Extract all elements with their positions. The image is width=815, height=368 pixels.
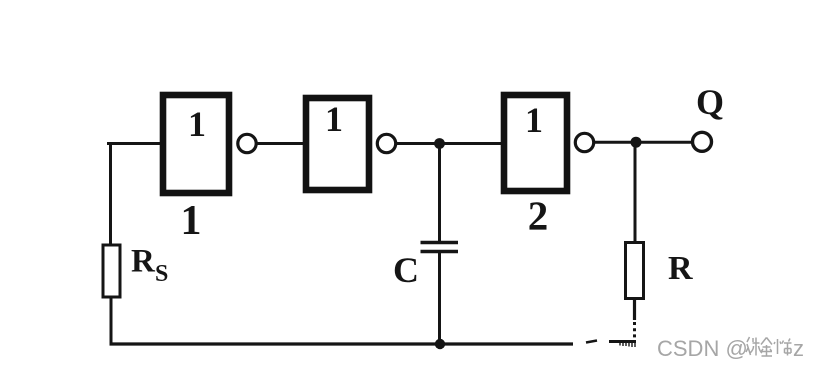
watermark CJK glyph guai: [774, 339, 792, 356]
wire capacitor bottom lead: [438, 252, 441, 346]
svg-text:1: 1: [181, 198, 202, 244]
svg-text:R: R: [668, 250, 693, 287]
svg-text:R: R: [131, 244, 156, 280]
capacitor C plates: [421, 243, 459, 252]
resistor RS body: [103, 245, 120, 297]
bottom rail faded dash segment: [586, 341, 597, 343]
watermark z: [793, 336, 804, 361]
label 2 under gate U3: [528, 193, 549, 239]
output bubble of U2: [377, 134, 395, 152]
svg-text:1: 1: [188, 104, 206, 144]
inverter gate U1: [163, 95, 229, 193]
node at capacitor bottom: [435, 339, 445, 349]
label Q: [696, 82, 724, 122]
watermark CJK glyph jin: [761, 338, 772, 357]
wire R bottom dotted segment: [633, 322, 636, 340]
wire U3 to output terminal: [594, 141, 692, 144]
wire left vertical from input down to Rs: [109, 142, 112, 245]
watermark CSDN: [657, 336, 748, 361]
wire Rs bottom to bottom rail: [110, 297, 113, 346]
output bubble of U3: [575, 133, 593, 151]
label C: [393, 250, 419, 290]
svg-text:Q: Q: [696, 82, 724, 122]
svg-text:z: z: [793, 336, 804, 361]
label 1 under gate U1: [181, 198, 202, 244]
bottom rail wire: [110, 342, 574, 345]
wire capacitor top lead: [438, 144, 441, 244]
wire R top lead: [634, 142, 637, 243]
node at capacitor top: [434, 138, 445, 149]
wire U2 to U3: [396, 142, 504, 145]
svg-text:2: 2: [528, 193, 549, 239]
label R: [668, 250, 693, 287]
bottom rail segment under R with hatch ticks: [609, 342, 636, 348]
resistor R body: [626, 243, 644, 299]
node at R top: [631, 137, 642, 148]
svg-text:1: 1: [325, 99, 343, 139]
svg-text:CSDN @: CSDN @: [657, 336, 748, 361]
wire input to gate 1: [107, 142, 163, 145]
watermark CJK glyph lian: [746, 337, 762, 356]
svg-text:1: 1: [525, 100, 543, 140]
wire R bottom solid segment: [633, 299, 636, 320]
label RS: [131, 244, 168, 288]
svg-text:S: S: [155, 261, 168, 287]
inverter gate U2: [306, 98, 369, 190]
output terminal Q: [693, 132, 712, 151]
svg-text:C: C: [393, 250, 419, 290]
inverter gate U3: [504, 95, 567, 191]
output bubble of U1: [238, 134, 256, 152]
wire U1 to U2: [257, 142, 306, 145]
